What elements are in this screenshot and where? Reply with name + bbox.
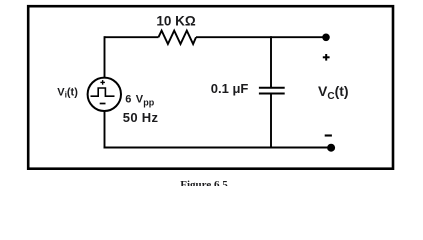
svg-text:0.1 μF: 0.1 μF	[211, 81, 249, 96]
wire top rail left segment	[105, 36, 159, 38]
svg-text:Vi(t): Vi(t)	[57, 87, 78, 100]
svg-text:50 Hz: 50 Hz	[123, 110, 159, 125]
wire top rail right segment	[196, 36, 324, 38]
output minus sign	[325, 134, 332, 136]
capacitor C1 bottom plate	[259, 93, 285, 95]
capacitor C1 top plate	[259, 87, 285, 89]
wire capacitor branch lower	[270, 94, 272, 149]
border frame	[28, 6, 393, 169]
source square-wave symbol	[91, 88, 115, 96]
node terminal dot bottom	[327, 144, 335, 152]
source minus polarity mark	[100, 103, 106, 105]
svg-text:6Vpp: 6Vpp	[125, 93, 155, 107]
svg-text:10 KΩ: 10 KΩ	[156, 14, 196, 29]
wire capacitor branch upper	[270, 36, 272, 87]
svg-text:VC(t): VC(t)	[318, 83, 349, 102]
wire left branch vertical	[104, 36, 106, 148]
resistor R1 zigzag	[159, 31, 197, 44]
node terminal dot top	[322, 34, 330, 42]
wire bottom rail	[104, 147, 332, 149]
source plus polarity mark	[100, 81, 105, 83]
source V1 circle	[88, 78, 121, 111]
output plus sign	[323, 56, 330, 58]
svg-text:Figure 6.5: Figure 6.5	[180, 179, 228, 186]
